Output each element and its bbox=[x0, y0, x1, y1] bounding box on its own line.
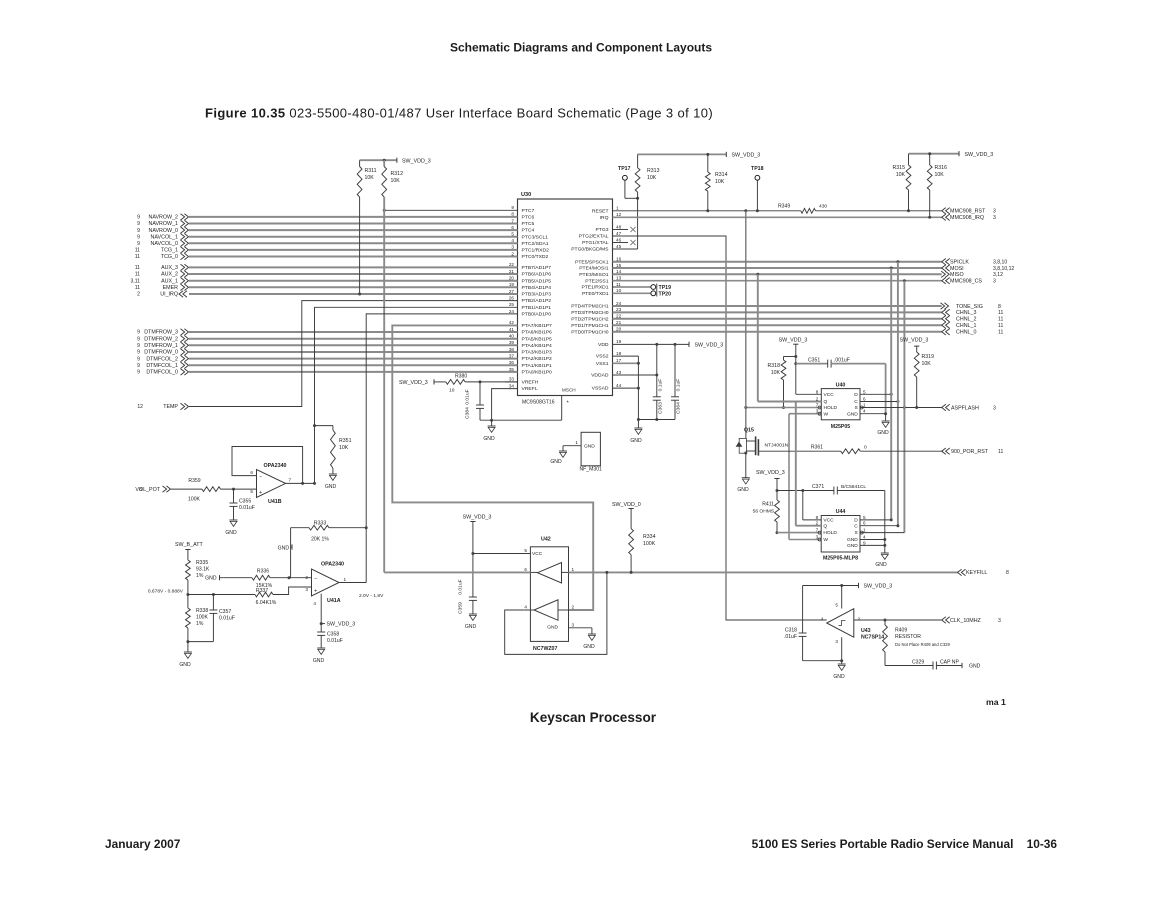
wire U42 open-drain loop bbox=[505, 572, 607, 654]
wire NAVCOL_0 bbox=[137, 240, 517, 247]
resistor R333 20K 1% feedback bbox=[289, 520, 366, 577]
svg-text:PTC1/RXD2: PTC1/RXD2 bbox=[522, 248, 550, 254]
svg-text:DTMFCOL_0: DTMFCOL_0 bbox=[146, 370, 178, 376]
U30 pin 33 VREFH bbox=[505, 377, 539, 386]
resistor R351 10K bbox=[315, 426, 352, 474]
svg-text:IRQ: IRQ bbox=[600, 215, 609, 221]
wire PTG2/EXTAL clock to U43 bbox=[613, 236, 827, 620]
svg-text:6: 6 bbox=[863, 521, 866, 526]
capacitor C329 CAP NP bbox=[885, 659, 981, 669]
U44 pin 4 GND bbox=[847, 535, 886, 544]
wire NAVCOL_1 bbox=[137, 234, 517, 241]
wire MMC908_CS bbox=[613, 278, 997, 285]
svg-text:3: 3 bbox=[993, 215, 996, 221]
svg-text:PTC0/TXD2: PTC0/TXD2 bbox=[522, 254, 549, 260]
svg-text:GND: GND bbox=[179, 662, 191, 668]
svg-text:M25P05: M25P05 bbox=[831, 424, 851, 430]
svg-text:GND: GND bbox=[325, 484, 337, 490]
svg-text:PTA4/KBI1P4: PTA4/KBI1P4 bbox=[522, 343, 553, 349]
svg-text:C371: C371 bbox=[812, 484, 824, 490]
svg-text:GND: GND bbox=[465, 624, 477, 630]
svg-text:PTG0/BKGD/MS: PTG0/BKGD/MS bbox=[571, 247, 609, 253]
U30 pin PTG3 no-connect bbox=[613, 227, 636, 232]
svg-text:−: − bbox=[259, 474, 262, 480]
svg-text:PTE3/MISO1: PTE3/MISO1 bbox=[579, 272, 609, 278]
svg-text:EMER: EMER bbox=[163, 285, 179, 291]
flash U40 box bbox=[821, 382, 860, 430]
U30 pin 19 PTB4/AD1P4 bbox=[509, 282, 551, 291]
U40 pin 6 C / SPICLK vertical bbox=[854, 262, 899, 526]
svg-text:9: 9 bbox=[863, 540, 866, 545]
ground C358 bbox=[313, 648, 325, 664]
ground at VREF bbox=[483, 420, 495, 442]
svg-text:PTC7: PTC7 bbox=[522, 208, 535, 214]
power rail SW_VDD_3 for U43 bbox=[803, 583, 893, 590]
svg-text:44: 44 bbox=[616, 383, 622, 388]
footer right bbox=[752, 837, 1058, 851]
svg-text:R333: R333 bbox=[314, 520, 327, 526]
svg-text:NAVCOL_1: NAVCOL_1 bbox=[151, 234, 178, 240]
svg-text:DTMFROW_1: DTMFROW_1 bbox=[144, 343, 178, 349]
svg-text:Keyscan Processor: Keyscan Processor bbox=[530, 710, 657, 725]
svg-text:PTG2/EXTAL: PTG2/EXTAL bbox=[579, 234, 609, 240]
svg-text:SW_B_ATT: SW_B_ATT bbox=[175, 542, 203, 548]
ground U40 bbox=[877, 414, 889, 436]
U30 pin 21 PTD1/TPM1CH1 bbox=[571, 320, 621, 329]
svg-text:3: 3 bbox=[572, 623, 575, 628]
ground U42 bbox=[583, 634, 596, 650]
svg-text:GND: GND bbox=[969, 664, 981, 670]
wire PTB0 sense (batt) bbox=[365, 314, 518, 583]
power rail SW_VDD_3 top-left bbox=[360, 158, 431, 165]
svg-text:RESET: RESET bbox=[592, 208, 609, 214]
U40 pin 1 S / chip select to ASPFLASH bbox=[855, 281, 996, 533]
svg-text:8: 8 bbox=[998, 304, 1001, 310]
svg-text:PTG3: PTG3 bbox=[596, 227, 609, 233]
svg-text:GND: GND bbox=[225, 530, 237, 536]
wire TCG_0 bbox=[135, 253, 518, 260]
wire decoupling gnd bus bbox=[638, 419, 675, 421]
svg-text:TP19: TP19 bbox=[659, 285, 672, 291]
svg-text:MSCH: MSCH bbox=[562, 388, 576, 393]
svg-text:9: 9 bbox=[137, 234, 140, 240]
svg-text:11: 11 bbox=[998, 449, 1003, 455]
svg-text:47: 47 bbox=[616, 231, 622, 236]
svg-text:11: 11 bbox=[998, 310, 1003, 316]
U30 pin 23 PTD3/TPM2CH0 bbox=[571, 307, 621, 316]
svg-text:C359: C359 bbox=[458, 602, 464, 614]
svg-text:D: D bbox=[854, 518, 858, 524]
svg-text:PTB2/AD1P2: PTB2/AD1P2 bbox=[522, 298, 552, 304]
svg-text:.001uF: .001uF bbox=[834, 358, 850, 364]
U30 pin 14 PTE3/MISO1 bbox=[579, 269, 621, 278]
svg-text:PTD3/TPM2CH0: PTD3/TPM2CH0 bbox=[571, 310, 609, 316]
svg-text:VSSAD: VSSAD bbox=[592, 386, 609, 392]
svg-text:R314: R314 bbox=[715, 172, 728, 178]
svg-text:SW_VDD_3: SW_VDD_3 bbox=[732, 153, 761, 159]
U30 pin 45 PTG0/BKGD/MS bbox=[571, 244, 621, 253]
svg-text:0.01uF: 0.01uF bbox=[458, 579, 464, 594]
resistor R336 15K1% from GND bbox=[205, 568, 311, 589]
svg-text:SW_VDD_3: SW_VDD_3 bbox=[779, 337, 808, 343]
U40 pin 7 HOLD bbox=[744, 403, 837, 412]
svg-text:+: + bbox=[259, 490, 262, 496]
svg-text:R313: R313 bbox=[647, 168, 660, 174]
resistor R361 / 900_POR_RST bbox=[758, 445, 1003, 455]
svg-text:6: 6 bbox=[250, 470, 253, 475]
sheet mark bbox=[986, 697, 1006, 707]
U30 pin 37 PTA2/KBI1P2 bbox=[509, 353, 552, 362]
svg-text:C: C bbox=[854, 523, 858, 529]
resistor R409 (not placed) bbox=[883, 620, 951, 666]
svg-text:PTC2/SDA1: PTC2/SDA1 bbox=[522, 241, 549, 247]
wire TCG_1 bbox=[135, 247, 518, 254]
wire RESET net vertical to Q15 bbox=[745, 211, 747, 439]
svg-text:PTE5/SPSCK1: PTE5/SPSCK1 bbox=[575, 259, 609, 265]
svg-text:1: 1 bbox=[344, 577, 347, 582]
wire DTMFCOL_0 bbox=[137, 369, 517, 376]
U30 pin 18 VSS2 bbox=[596, 351, 622, 360]
svg-text:GND: GND bbox=[205, 576, 217, 582]
svg-text:33: 33 bbox=[509, 377, 515, 382]
wire AUX_1 bbox=[130, 278, 517, 285]
svg-text:R349: R349 bbox=[778, 204, 790, 210]
wire NAVROW_0 bbox=[137, 227, 517, 234]
svg-text:R334: R334 bbox=[643, 534, 656, 540]
U44 pin 5 D bbox=[854, 515, 892, 524]
svg-text:9: 9 bbox=[137, 336, 140, 342]
resistor R338 100K 1% bbox=[186, 595, 209, 644]
svg-text:R351: R351 bbox=[339, 438, 352, 444]
svg-text:19: 19 bbox=[616, 339, 622, 344]
capacitor C359 0.01uF bbox=[458, 579, 477, 614]
svg-text:2: 2 bbox=[816, 521, 819, 526]
wire EMER bbox=[135, 284, 518, 291]
resistor R359 100K bbox=[188, 478, 256, 503]
wire DTMFROW_3 bbox=[137, 329, 517, 336]
wire DTMFROW_0 bbox=[137, 349, 517, 356]
svg-text:VREFH: VREFH bbox=[522, 380, 539, 386]
U30 pin 40 PTA5/KBI1P5 bbox=[509, 334, 552, 343]
U40 pin 2 Q / MISO vertical bbox=[758, 274, 828, 405]
wire MOSI bbox=[613, 265, 1015, 272]
svg-text:GND: GND bbox=[833, 674, 845, 680]
svg-text:0.1uF: 0.1uF bbox=[676, 379, 682, 392]
U30 pin 22 PTB7/AD1P7 bbox=[509, 262, 551, 271]
ground R351 bbox=[325, 474, 337, 490]
svg-text:8: 8 bbox=[816, 515, 819, 520]
ground C359 bbox=[465, 614, 477, 630]
svg-text:10K: 10K bbox=[935, 172, 945, 178]
svg-text:R380: R380 bbox=[455, 374, 467, 380]
svg-text:R337: R337 bbox=[256, 588, 268, 594]
capacitor C384 0.01uF bbox=[465, 382, 485, 420]
svg-text:9: 9 bbox=[137, 356, 140, 362]
svg-text:8: 8 bbox=[1006, 570, 1009, 576]
svg-text:CHNL_3: CHNL_3 bbox=[956, 310, 976, 316]
svg-text:VCC: VCC bbox=[824, 392, 835, 398]
power stub SW_VDD_3 for U42 bbox=[463, 515, 492, 598]
page header bbox=[450, 41, 712, 55]
svg-text:20K 1%: 20K 1% bbox=[311, 537, 329, 543]
wire AUX_3 bbox=[135, 264, 518, 271]
svg-text:10: 10 bbox=[616, 288, 622, 293]
U44 pin 8 VCC bbox=[803, 491, 834, 524]
svg-text:10: 10 bbox=[449, 388, 455, 394]
U30 pin 46 PTG1/XTAL bbox=[582, 237, 621, 246]
svg-text:GND: GND bbox=[737, 487, 749, 493]
wire CHNL_1 bbox=[613, 322, 1004, 329]
svg-text:Q: Q bbox=[824, 399, 828, 405]
svg-text:5: 5 bbox=[863, 515, 866, 520]
svg-text:TP20: TP20 bbox=[659, 292, 672, 298]
ground C355 bbox=[225, 520, 237, 536]
svg-text:TP17: TP17 bbox=[618, 166, 631, 172]
power stub SW_VDD_3 for U40 bbox=[779, 337, 808, 394]
svg-text:PTB5/AD1P5: PTB5/AD1P5 bbox=[522, 278, 552, 284]
wire CHNL_3 bbox=[613, 309, 1004, 316]
svg-text:3,8,10: 3,8,10 bbox=[993, 260, 1007, 266]
wire U41A output bbox=[339, 583, 384, 599]
wire DTMFROW_1 bbox=[137, 342, 517, 349]
svg-text:PTC6: PTC6 bbox=[522, 215, 535, 221]
op-amp U41A OPA2340 bbox=[305, 562, 346, 606]
svg-text:4: 4 bbox=[863, 409, 866, 414]
svg-text:U40: U40 bbox=[836, 382, 846, 388]
U30 pin PTG1 no-connect bbox=[613, 240, 636, 245]
wire VREFL to ground bbox=[480, 389, 562, 422]
svg-text:C: C bbox=[854, 399, 858, 405]
svg-text:+: + bbox=[314, 589, 317, 595]
svg-text:R316: R316 bbox=[935, 165, 948, 171]
svg-text:11: 11 bbox=[998, 330, 1003, 336]
wire IRQ to MMC908_IRQ bbox=[613, 214, 997, 221]
svg-text:45: 45 bbox=[616, 244, 622, 249]
svg-text:100K: 100K bbox=[196, 615, 208, 621]
MCU U30 box bbox=[518, 192, 613, 407]
svg-text:10K: 10K bbox=[365, 175, 375, 181]
svg-text:9: 9 bbox=[137, 343, 140, 349]
svg-text:GND: GND bbox=[313, 658, 325, 664]
U44 pin 7 HOLD bbox=[777, 528, 837, 537]
capacitor C364 0.1uF bbox=[671, 344, 682, 419]
svg-text:SW_VDD_3: SW_VDD_3 bbox=[327, 622, 356, 628]
wire R312 to keyfill buffer (gray vertical) bbox=[383, 197, 385, 572]
title Keyscan Processor bbox=[530, 710, 657, 725]
U44 pin 6 C bbox=[854, 521, 899, 530]
svg-text:PTA0/KBI1P0: PTA0/KBI1P0 bbox=[522, 370, 553, 376]
svg-text:56 OHMS: 56 OHMS bbox=[753, 509, 775, 515]
capacitor C351 .001uF bbox=[796, 358, 886, 414]
U30 pin 4 PTC2/SDA1 bbox=[511, 238, 548, 247]
svg-text:4: 4 bbox=[863, 535, 866, 540]
U30 pin 25 PTB1/AD1P1 bbox=[509, 302, 551, 311]
svg-text:SW_VDD_3: SW_VDD_3 bbox=[965, 152, 994, 158]
svg-text:3: 3 bbox=[993, 209, 996, 215]
svg-text:11: 11 bbox=[998, 323, 1003, 329]
resistor R312 10K bbox=[382, 160, 403, 197]
wire DTMFROW_2 bbox=[137, 336, 517, 343]
U30 pin 6 PTC4 bbox=[511, 225, 534, 234]
svg-text:R361: R361 bbox=[811, 445, 823, 451]
wire VSS2/VSS1/VSSAD ground bus bbox=[613, 356, 640, 428]
svg-text:18: 18 bbox=[616, 351, 622, 356]
U30 pin 8 PTC6 bbox=[511, 212, 534, 221]
svg-text:11: 11 bbox=[135, 265, 140, 271]
svg-text:NC7SP14: NC7SP14 bbox=[861, 635, 884, 641]
svg-text:CLK_10MHZ: CLK_10MHZ bbox=[950, 618, 982, 624]
svg-text:0.1uF: 0.1uF bbox=[658, 379, 664, 392]
svg-text:TONE_SIG: TONE_SIG bbox=[956, 304, 983, 310]
svg-text:B/C5841CL: B/C5841CL bbox=[841, 484, 866, 490]
testpoint TP18 bbox=[751, 166, 764, 212]
wire U41B feedback bbox=[232, 447, 304, 485]
svg-text:MMC908_IRQ: MMC908_IRQ bbox=[950, 215, 984, 221]
U30 pin 36 PTA1/KBI1P1 bbox=[509, 360, 552, 369]
svg-text:1%: 1% bbox=[196, 621, 204, 627]
U30 pin 16 PTE5/SPSCK1 bbox=[575, 257, 621, 266]
svg-text:PTB6/AD1P6: PTB6/AD1P6 bbox=[522, 272, 552, 278]
svg-text:PTD1/TPM1CH1: PTD1/TPM1CH1 bbox=[571, 323, 609, 329]
svg-text:W: W bbox=[824, 411, 829, 417]
svg-text:NAVROW_1: NAVROW_1 bbox=[148, 221, 178, 227]
wire TONE_SIG bbox=[613, 303, 1002, 310]
svg-text:3,11: 3,11 bbox=[130, 278, 140, 284]
svg-text:9: 9 bbox=[137, 228, 140, 234]
svg-text:4: 4 bbox=[524, 604, 527, 609]
U30 pin 20 PTD0/TPM1CH0 bbox=[571, 327, 621, 336]
transistor Q15 NTJ4001N bbox=[736, 428, 789, 456]
svg-text:DTMFROW_2: DTMFROW_2 bbox=[144, 336, 178, 342]
svg-text:5: 5 bbox=[863, 389, 866, 394]
resistor R380 10 bbox=[446, 374, 518, 394]
svg-text:PTC3/SCL1: PTC3/SCL1 bbox=[522, 234, 549, 240]
U30 pin 35 PTA0/KBI1P0 bbox=[509, 367, 552, 376]
svg-text:10K: 10K bbox=[771, 370, 781, 376]
U30 pin 41 PTA6/KBI1P6 bbox=[509, 327, 552, 336]
svg-text:U44: U44 bbox=[836, 509, 846, 515]
svg-text:26: 26 bbox=[509, 295, 515, 300]
U30 pin 1 RESET bbox=[592, 206, 619, 215]
svg-text:PTE2/SS1: PTE2/SS1 bbox=[585, 278, 608, 284]
svg-text:U41B: U41B bbox=[268, 499, 282, 505]
svg-text:5: 5 bbox=[250, 489, 253, 494]
U30 pin 5 PTC3/SCL1 bbox=[511, 232, 548, 241]
wire NAVROW_1 bbox=[137, 220, 517, 227]
svg-text:12: 12 bbox=[137, 404, 143, 410]
capacitor C371 rail bbox=[777, 484, 885, 495]
svg-text:R318: R318 bbox=[768, 363, 781, 369]
svg-text:2: 2 bbox=[305, 575, 308, 580]
svg-text:100K: 100K bbox=[188, 497, 200, 503]
ground at NF_M301 bbox=[550, 451, 567, 465]
svg-text:PTB4/AD1P4: PTB4/AD1P4 bbox=[522, 285, 552, 291]
svg-text:SW_VDD_3: SW_VDD_3 bbox=[399, 380, 428, 386]
svg-text:VSS2: VSS2 bbox=[596, 354, 609, 360]
resistor R316 10K bbox=[927, 154, 947, 218]
wire VDD to SW_VDD_3 bbox=[613, 342, 724, 349]
U30 pin 7 PTC5 bbox=[511, 218, 534, 227]
wire CHNL_2 bbox=[613, 316, 1004, 323]
svg-text:R336: R336 bbox=[257, 568, 269, 574]
svg-text:7: 7 bbox=[816, 528, 819, 533]
svg-text:PTA5/KBI1P5: PTA5/KBI1P5 bbox=[522, 336, 553, 342]
svg-text:1: 1 bbox=[616, 206, 619, 211]
svg-text:10K: 10K bbox=[391, 178, 401, 184]
svg-text:Figure 10.35 023-5500-480-01/: Figure 10.35 023-5500-480-01/487 User In… bbox=[205, 106, 713, 121]
svg-text:SW_VDD_3: SW_VDD_3 bbox=[756, 470, 785, 476]
power rail SW_VDD_3 top-mid bbox=[638, 152, 761, 159]
svg-text:9: 9 bbox=[137, 241, 140, 247]
svg-text:R409: R409 bbox=[895, 628, 907, 634]
svg-text:17: 17 bbox=[616, 358, 622, 363]
svg-text:0.01uF: 0.01uF bbox=[465, 389, 471, 404]
U44 pin 9 GND bbox=[847, 540, 886, 549]
wire RESET to MMC908_RST bbox=[613, 204, 997, 215]
svg-text:OPA2340: OPA2340 bbox=[264, 463, 287, 469]
svg-text:SW_VDD_3: SW_VDD_3 bbox=[864, 584, 893, 590]
svg-text:VDD: VDD bbox=[598, 342, 609, 348]
U44 pin 3 W bbox=[789, 535, 828, 544]
svg-text:11: 11 bbox=[135, 285, 140, 291]
wire PTG0/BKGD to R313 bbox=[613, 248, 638, 250]
U30 pin 38 PTA3/KBI1P3 bbox=[509, 347, 552, 356]
svg-text:PTD4/TPM2CH1: PTD4/TPM2CH1 bbox=[571, 304, 609, 310]
svg-text:GND: GND bbox=[630, 438, 642, 444]
svg-text:Q: Q bbox=[823, 523, 827, 529]
U30 pin 48 PTG3 bbox=[596, 224, 622, 233]
svg-text:9: 9 bbox=[137, 370, 140, 376]
svg-text:MMC908_CS: MMC908_CS bbox=[950, 279, 982, 285]
svg-text:NAVCOL_0: NAVCOL_0 bbox=[151, 241, 178, 247]
svg-text:11: 11 bbox=[998, 317, 1003, 323]
resistor R337 6.04K1% bbox=[188, 587, 312, 606]
svg-text:January 2007: January 2007 bbox=[105, 837, 181, 851]
svg-text:PTB7/AD1P7: PTB7/AD1P7 bbox=[522, 265, 552, 271]
svg-text:5: 5 bbox=[835, 603, 838, 608]
wire CLK_10MHZ out bbox=[854, 617, 1001, 624]
svg-text:GND: GND bbox=[847, 537, 858, 543]
wire UI_IRQ bbox=[137, 291, 517, 298]
svg-text:NAVROW_0: NAVROW_0 bbox=[148, 228, 178, 234]
resistor R319 10K pullup bbox=[900, 337, 934, 407]
svg-text:SW_VDD_3: SW_VDD_3 bbox=[695, 343, 724, 349]
U30 pin 43 VDDAD bbox=[591, 370, 621, 379]
testpoint TP20 bbox=[613, 291, 672, 298]
U40 pin 8 VCC bbox=[796, 389, 834, 398]
resistor R314 10K bbox=[705, 154, 727, 212]
svg-text:DTMFCOL_2: DTMFCOL_2 bbox=[146, 356, 178, 362]
resistor R311 10K bbox=[357, 160, 376, 295]
svg-text:RESISTOR: RESISTOR bbox=[895, 634, 921, 640]
U30 pin 42 PTA7/KBI1P7 bbox=[509, 320, 552, 329]
svg-text:AUX_2: AUX_2 bbox=[161, 272, 178, 278]
resistor R315 10K bbox=[893, 154, 911, 211]
svg-text:C351: C351 bbox=[808, 358, 820, 364]
U30 pin 13 PTE2/SS1 bbox=[585, 276, 621, 285]
svg-text:43: 43 bbox=[616, 370, 622, 375]
U43 power pin 5 bbox=[841, 586, 843, 609]
U30 pin 44 VSSAD bbox=[592, 383, 622, 392]
power stub SW_VDD_3 for U44 bbox=[756, 470, 785, 500]
U30 pin 3 PTC1/RXD2 bbox=[511, 245, 549, 254]
svg-text:4: 4 bbox=[821, 617, 824, 622]
wire MISO bbox=[613, 271, 1004, 278]
svg-text:11: 11 bbox=[135, 272, 140, 278]
U42 buffer gate A (keyfill sense) bbox=[524, 563, 574, 584]
svg-text:PTA2/KBI1P2: PTA2/KBI1P2 bbox=[522, 356, 553, 362]
svg-text:1: 1 bbox=[575, 440, 578, 445]
